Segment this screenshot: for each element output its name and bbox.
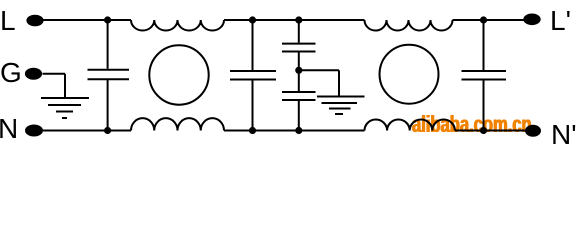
label N (0, 113, 18, 145)
ground 1 bar 4 (62, 117, 67, 119)
capacitor CY2 bottom plate (282, 99, 316, 101)
wire cap C1 top lead (107, 20, 109, 69)
terminal L (26, 15, 43, 27)
ground 2 bar 1 (317, 96, 365, 98)
ground 2 bar 2 (322, 102, 358, 104)
capacitor C1 bottom plate (88, 78, 130, 80)
junction top rail at CY1 (295, 16, 302, 23)
capacitor C2 top plate (230, 70, 276, 72)
inductor top winding of choke T1 (131, 20, 224, 31)
terminal L' (523, 13, 540, 25)
capacitor C3 bottom plate (462, 79, 507, 81)
wire ground 1 stem (64, 74, 66, 97)
wire top rail L to first choke (43, 19, 131, 21)
wire bottom rail choke T2 to N' (455, 130, 525, 132)
capacitor C3 top plate (462, 70, 507, 72)
junction bottom rail at C2 (249, 127, 256, 134)
inductor top winding of choke T2 (365, 20, 453, 30)
wire cap C3 bottom lead (483, 81, 485, 131)
label G (0, 57, 22, 89)
label L (0, 5, 16, 37)
wire Y-cap upper lead from top rail (298, 20, 300, 43)
capacitor C1 top plate (88, 69, 130, 71)
junction top rail at C3 (480, 16, 487, 23)
capacitor CY2 top plate (282, 91, 316, 93)
capacitor C2 bottom plate (230, 79, 276, 81)
inductor bottom winding of choke T1 (131, 118, 224, 130)
junction bottom rail at C3 (480, 127, 487, 134)
wire G terminal to ground stem (43, 73, 66, 75)
label L' (550, 5, 571, 37)
capacitor CY1 top plate (282, 43, 316, 45)
ground 1 bar 1 (41, 97, 89, 99)
wire CY2 to bottom rail (298, 101, 300, 131)
junction bottom rail at C1 (104, 127, 111, 134)
junction top rail at C2 (249, 16, 256, 23)
junction bottom rail at CY2 (295, 127, 302, 134)
core circle of choke T2 (380, 45, 439, 104)
wire bottom rail N to first choke (43, 130, 131, 132)
wire cap C2 top lead (252, 20, 254, 70)
junction mid node between Y-caps (295, 67, 302, 74)
ground 2 bar 3 (329, 108, 351, 110)
wire bottom rail between chokes (224, 130, 365, 132)
wire ground 2 stem (338, 70, 340, 95)
wire between CY1 and mid node (298, 53, 300, 92)
wire top rail choke T2 to L' (453, 19, 525, 21)
terminal N' (525, 125, 541, 137)
terminal N (25, 125, 43, 137)
label N' (551, 119, 577, 151)
wire cap C3 top lead (483, 20, 485, 70)
wire cap C2 bottom lead (252, 81, 254, 131)
ground 1 bar 2 (48, 104, 81, 106)
junction top rail at C1 (104, 16, 111, 23)
watermark alibaba.com.cn (412, 111, 532, 138)
wire cap C1 bottom lead (107, 80, 109, 131)
core circle of choke T1 (149, 45, 208, 104)
ground 2 bar 4 (335, 113, 343, 115)
terminal G (25, 68, 42, 80)
capacitor CY1 bottom plate (282, 51, 316, 53)
wire top rail between chokes (224, 19, 365, 21)
wire mid node to ground 2 stem (299, 69, 339, 71)
inductor bottom winding of choke T2 (365, 119, 455, 130)
ground 1 bar 3 (56, 111, 73, 113)
